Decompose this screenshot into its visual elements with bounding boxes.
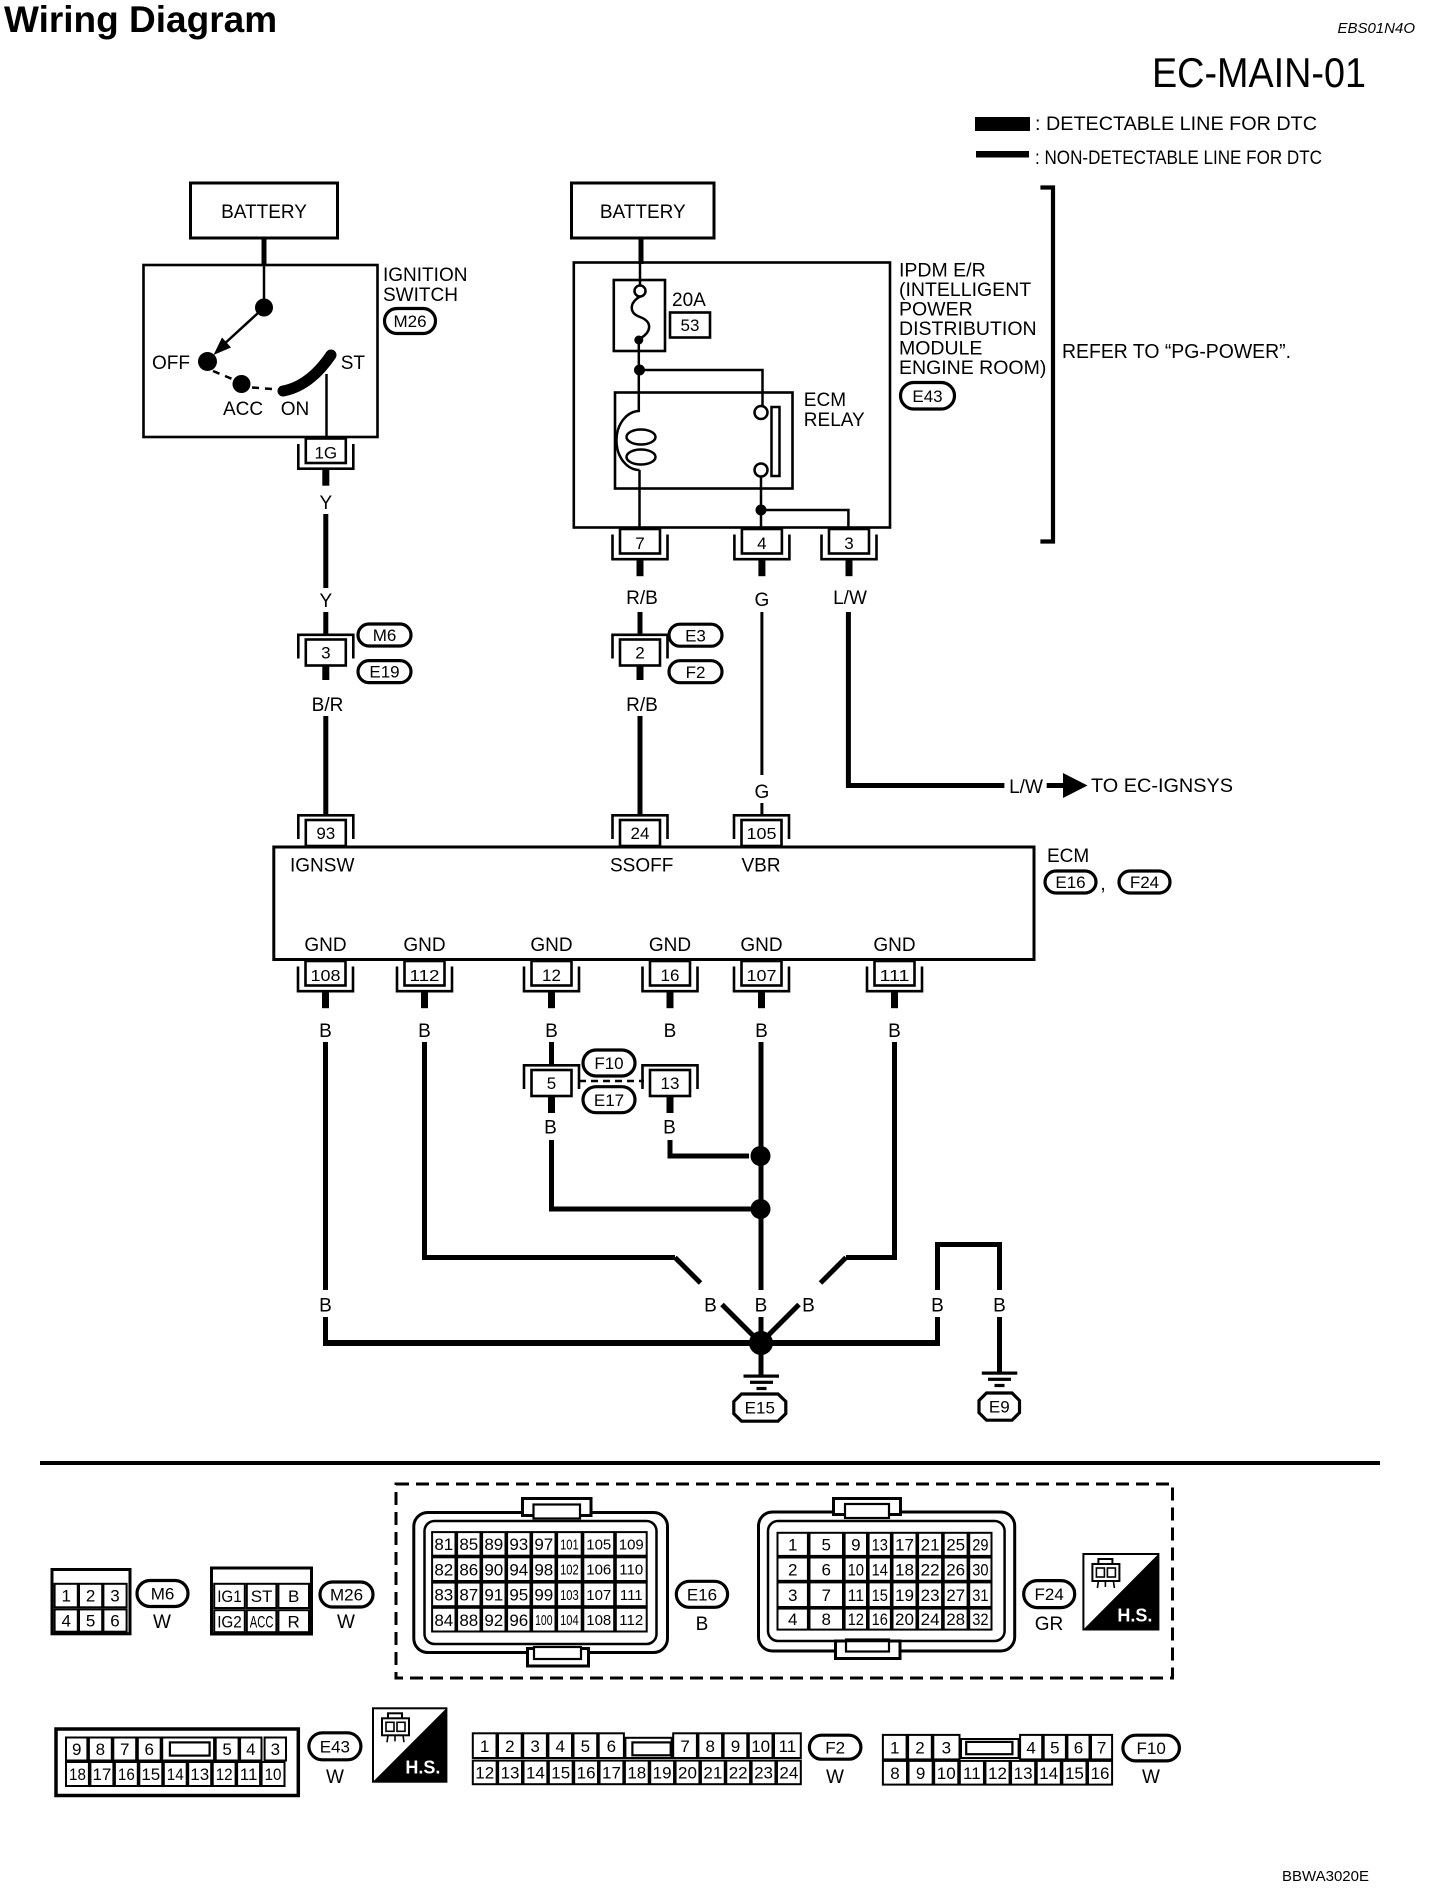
svg-text:E16: E16: [687, 1585, 717, 1604]
svg-text:6: 6: [607, 1737, 616, 1756]
svg-text:8: 8: [890, 1764, 899, 1783]
connector ref E16 oval (face): [676, 1581, 727, 1607]
ECM pin 111 connector: [875, 961, 915, 986]
svg-text:4: 4: [788, 1610, 797, 1629]
svg-text:W: W: [326, 1767, 344, 1788]
connector ref E16 oval: [1045, 871, 1096, 893]
dashed link OFF-ACC: [213, 371, 237, 381]
svg-text:E43: E43: [320, 1737, 350, 1756]
ECM pin 105 connector: [734, 815, 789, 839]
junction dot upper: [751, 1146, 771, 1166]
ground ref E9 oval: [979, 1393, 1020, 1420]
svg-text:107: 107: [747, 968, 777, 985]
svg-text:2: 2: [505, 1737, 514, 1756]
svg-text:Y: Y: [319, 591, 332, 612]
svg-text:8: 8: [96, 1740, 105, 1759]
svg-text:: DETECTABLE LINE FOR DTC: : DETECTABLE LINE FOR DTC: [1035, 114, 1317, 135]
wire R/B to ECM pin 24: [638, 716, 643, 815]
svg-text:93: 93: [316, 824, 335, 843]
legend non-detectable swatch: [976, 151, 1029, 158]
connector face M26: [212, 1568, 312, 1634]
svg-text:SSOFF: SSOFF: [610, 856, 673, 877]
harness dashes 5-13: [579, 1080, 644, 1083]
legend detectable swatch: [975, 117, 1030, 131]
svg-text:20: 20: [678, 1764, 697, 1783]
svg-text:B: B: [319, 1296, 332, 1317]
svg-text:13: 13: [661, 1074, 680, 1093]
wire B from 108: [323, 1042, 328, 1290]
svg-text:VBR: VBR: [742, 856, 781, 877]
relay armature slab: [772, 407, 780, 476]
svg-text:5: 5: [581, 1737, 590, 1756]
svg-text:B/R: B/R: [312, 695, 344, 716]
svg-text:B: B: [993, 1296, 1006, 1317]
harness dashed box: [396, 1484, 1173, 1678]
connector ref M26 oval: [385, 309, 436, 334]
wire coil to pin 7: [638, 470, 641, 528]
ECM pin 93 connector: [298, 815, 353, 839]
svg-text:53: 53: [681, 316, 700, 335]
svg-text:B: B: [544, 1118, 557, 1139]
svg-text:21: 21: [703, 1764, 722, 1783]
svg-text:24: 24: [779, 1764, 798, 1783]
svg-text:ENGINE ROOM): ENGINE ROOM): [899, 357, 1046, 379]
svg-text:B: B: [755, 1021, 768, 1042]
svg-text:106: 106: [586, 1562, 611, 1579]
svg-text:4: 4: [246, 1740, 255, 1759]
ECM pin 24 connector: [613, 815, 668, 839]
svg-text:B: B: [888, 1021, 901, 1042]
svg-text:ST: ST: [251, 1587, 273, 1606]
svg-text:12: 12: [216, 1765, 233, 1784]
svg-text:108: 108: [311, 968, 341, 985]
connector ref E43 oval: [901, 383, 955, 410]
svg-text:B: B: [663, 1118, 676, 1139]
svg-text:B: B: [704, 1296, 717, 1317]
wire B from 112: [425, 1042, 676, 1258]
svg-text:IG1: IG1: [217, 1587, 242, 1606]
svg-text:BATTERY: BATTERY: [600, 202, 686, 223]
arrow to EC-IGNSYS: [1047, 783, 1063, 788]
IPDM pin 7 connector: [620, 529, 660, 554]
connector ref F2 oval: [669, 661, 722, 683]
ground ref E15 oval: [734, 1394, 786, 1421]
svg-text:85: 85: [459, 1535, 478, 1554]
battery B1 box: [191, 183, 338, 238]
battery B2 box: [572, 183, 715, 238]
svg-text:EBS01N4O: EBS01N4O: [1337, 20, 1415, 37]
svg-text:11: 11: [779, 1737, 797, 1756]
svg-text:5: 5: [86, 1612, 95, 1631]
svg-text:B: B: [802, 1296, 815, 1317]
wire battery2 to IPDM: [639, 238, 644, 264]
connector ref M6 oval: [358, 624, 411, 646]
wire L/W elbow: [848, 612, 1004, 786]
connector ref E3 oval: [669, 624, 722, 646]
svg-text:26: 26: [946, 1560, 965, 1579]
connector ref F10 oval: [583, 1050, 635, 1076]
svg-text:107: 107: [586, 1587, 611, 1604]
svg-text:9: 9: [916, 1764, 925, 1783]
svg-text:F2: F2: [686, 663, 706, 682]
svg-text:ECM: ECM: [1047, 846, 1089, 867]
svg-text:18: 18: [627, 1764, 646, 1783]
connector ref F10 oval (face): [1123, 1735, 1180, 1761]
ground symbol E15: [744, 1375, 780, 1378]
fuse number 53: [670, 313, 710, 338]
svg-text:H.S.: H.S.: [1117, 1606, 1152, 1626]
connector face M6: [52, 1570, 130, 1634]
svg-text:SWITCH: SWITCH: [383, 285, 458, 306]
wire G: [760, 612, 763, 775]
svg-text:18: 18: [69, 1765, 86, 1784]
svg-text:E19: E19: [369, 663, 399, 682]
svg-text:94: 94: [509, 1560, 528, 1579]
svg-text:18: 18: [895, 1560, 914, 1579]
svg-text:96: 96: [509, 1611, 528, 1630]
svg-text:R/B: R/B: [626, 588, 658, 609]
main junction dot: [749, 1331, 773, 1355]
svg-text:111: 111: [880, 968, 910, 985]
svg-text:17: 17: [602, 1764, 621, 1783]
svg-text:11: 11: [963, 1764, 981, 1783]
svg-text:RELAY: RELAY: [804, 410, 865, 431]
ground bus main line: [323, 1340, 938, 1346]
connector ref E17 oval: [583, 1087, 635, 1113]
junction dot lower: [751, 1199, 771, 1219]
svg-text:3: 3: [942, 1738, 951, 1757]
svg-text:13: 13: [1014, 1764, 1033, 1783]
svg-text:111: 111: [620, 1587, 643, 1604]
ON-ST wiper crescent: [283, 355, 331, 391]
svg-text:7: 7: [822, 1586, 831, 1605]
wire Y segment: [323, 514, 328, 588]
svg-text:99: 99: [534, 1586, 553, 1605]
svg-text:16: 16: [118, 1765, 135, 1784]
svg-text:F10: F10: [1137, 1739, 1166, 1758]
connector face F24: [759, 1512, 1015, 1651]
svg-text:4: 4: [1026, 1738, 1035, 1757]
junction dot B: [756, 505, 767, 516]
svg-text:11: 11: [848, 1586, 864, 1605]
svg-text:87: 87: [459, 1586, 478, 1605]
svg-text:1G: 1G: [314, 444, 337, 463]
svg-text:1: 1: [480, 1737, 489, 1756]
svg-text:1: 1: [890, 1738, 899, 1757]
svg-text:B: B: [288, 1587, 299, 1606]
svg-text:12: 12: [848, 1610, 864, 1629]
svg-text:3: 3: [321, 644, 330, 663]
svg-text:6: 6: [145, 1740, 154, 1759]
svg-text:29: 29: [972, 1535, 988, 1554]
svg-text:F2: F2: [825, 1738, 845, 1757]
wire junction to E15 ground: [759, 1353, 764, 1376]
svg-text:22: 22: [729, 1764, 748, 1783]
svg-text:GND: GND: [649, 935, 691, 956]
svg-text:BBWA3020E: BBWA3020E: [1282, 1868, 1369, 1885]
svg-text:105: 105: [586, 1536, 611, 1553]
svg-text:Wiring Diagram: Wiring Diagram: [4, 0, 277, 40]
svg-text:16: 16: [577, 1764, 596, 1783]
svg-text:GND: GND: [403, 935, 445, 956]
svg-text:100: 100: [535, 1612, 552, 1629]
wire G to ECM pin 105: [760, 803, 763, 815]
ECM pin 16 connector: [650, 961, 690, 986]
inline terminal 5 connector: [524, 1065, 579, 1089]
wire B from 107: [759, 1042, 764, 1290]
svg-text:BATTERY: BATTERY: [221, 202, 307, 223]
svg-text:17: 17: [895, 1535, 914, 1554]
svg-text:1: 1: [788, 1535, 797, 1554]
svg-text:27: 27: [946, 1586, 965, 1605]
svg-text:20A: 20A: [672, 290, 706, 311]
svg-text:108: 108: [586, 1612, 611, 1629]
wire junction to contact: [640, 370, 763, 406]
junction dot A: [634, 365, 645, 376]
svg-text:4: 4: [555, 1737, 564, 1756]
svg-text:104: 104: [560, 1612, 579, 1629]
node ACC contact: [233, 375, 251, 393]
svg-text:83: 83: [434, 1586, 453, 1605]
wire diag 112 to junction: [675, 1258, 701, 1284]
svg-text:M26: M26: [330, 1586, 363, 1605]
svg-text:M6: M6: [373, 626, 397, 645]
wire contact to pin 4: [760, 477, 763, 529]
svg-text:15: 15: [141, 1765, 160, 1784]
svg-text:E43: E43: [912, 387, 942, 406]
svg-text:3: 3: [788, 1586, 797, 1605]
svg-text:5: 5: [222, 1740, 231, 1759]
svg-text:W: W: [153, 1612, 171, 1633]
connector ref F24 oval (face): [1024, 1581, 1075, 1608]
svg-text:110: 110: [619, 1562, 643, 1579]
svg-text:E16: E16: [1055, 873, 1085, 892]
wire 13 to junction: [670, 1140, 749, 1156]
svg-text:ACC: ACC: [250, 1612, 274, 1631]
wiper arrow to OFF: [222, 308, 264, 347]
wire to fuse: [639, 263, 642, 285]
svg-text:GND: GND: [740, 935, 782, 956]
svg-text:ACC: ACC: [223, 399, 263, 420]
svg-text:95: 95: [509, 1586, 528, 1605]
svg-text:7: 7: [635, 534, 644, 553]
svg-text:M26: M26: [393, 312, 426, 331]
terminal 1G connector: [306, 439, 346, 464]
ECM pin 12 connector: [532, 961, 572, 986]
svg-text:3: 3: [530, 1737, 539, 1756]
connector ref M26 oval (face): [320, 1582, 373, 1607]
svg-text:19: 19: [895, 1586, 914, 1605]
svg-text:24: 24: [921, 1610, 940, 1629]
svg-text:2: 2: [86, 1587, 95, 1606]
svg-text:G: G: [755, 782, 770, 803]
svg-text:25: 25: [946, 1535, 965, 1554]
svg-text:103: 103: [560, 1587, 579, 1604]
svg-text:2: 2: [635, 644, 644, 663]
svg-text:6: 6: [110, 1612, 119, 1631]
svg-text:24: 24: [631, 824, 650, 843]
svg-text:B: B: [931, 1296, 944, 1317]
node OFF contact: [198, 352, 217, 371]
svg-text:W: W: [826, 1767, 844, 1788]
svg-text:E17: E17: [594, 1091, 624, 1110]
svg-text:6: 6: [822, 1560, 831, 1579]
svg-text:15: 15: [551, 1764, 570, 1783]
svg-text:21: 21: [921, 1535, 940, 1554]
svg-text:B: B: [696, 1614, 709, 1635]
svg-text:13: 13: [501, 1764, 520, 1783]
fuse element: [635, 286, 646, 297]
relay contact bottom: [755, 464, 768, 477]
wire ST output: [325, 374, 328, 437]
svg-text:F10: F10: [594, 1054, 623, 1073]
svg-text:: NON-DETECTABLE LINE FOR DTC: : NON-DETECTABLE LINE FOR DTC: [1035, 148, 1322, 169]
svg-text:112: 112: [619, 1612, 643, 1629]
svg-text:10: 10: [848, 1560, 864, 1579]
svg-text:E9: E9: [989, 1398, 1010, 1417]
wire 5 to junction: [552, 1140, 753, 1209]
svg-text:105: 105: [747, 826, 777, 843]
svg-text:17: 17: [92, 1765, 111, 1784]
svg-text:L/W: L/W: [1009, 777, 1043, 798]
svg-text:5: 5: [1050, 1738, 1059, 1757]
svg-text:ECM: ECM: [804, 390, 846, 411]
svg-text:2: 2: [788, 1560, 797, 1579]
ECM pin 107 connector: [742, 961, 782, 986]
svg-text:91: 91: [484, 1586, 503, 1605]
svg-text:R: R: [288, 1612, 300, 1631]
svg-text:GR: GR: [1035, 1614, 1064, 1635]
IPDM E/R box: [574, 263, 890, 528]
wire Y to connector 3: [323, 612, 328, 634]
node common dot: [255, 299, 273, 317]
svg-text:12: 12: [988, 1764, 1007, 1783]
relay coil: [617, 411, 640, 470]
svg-text:B: B: [755, 1296, 768, 1317]
svg-text:7: 7: [1097, 1738, 1106, 1757]
svg-text:E15: E15: [745, 1399, 775, 1418]
svg-text:28: 28: [946, 1610, 965, 1629]
svg-text:REFER TO “PG-POWER”.: REFER TO “PG-POWER”.: [1062, 341, 1291, 363]
svg-text:ON: ON: [281, 399, 310, 420]
svg-text:B: B: [319, 1021, 332, 1042]
wire R/B upper: [638, 612, 643, 634]
svg-text:IGNITION: IGNITION: [383, 265, 467, 286]
svg-text:10: 10: [751, 1737, 770, 1756]
svg-text:G: G: [755, 590, 770, 611]
svg-text:9: 9: [72, 1740, 81, 1759]
wire diag 111 to junction: [821, 1258, 847, 1284]
svg-text:20: 20: [895, 1610, 914, 1629]
svg-text:2: 2: [915, 1738, 924, 1757]
svg-text:14: 14: [872, 1560, 888, 1579]
svg-text:6: 6: [1074, 1738, 1083, 1757]
svg-text:IG2: IG2: [217, 1612, 242, 1631]
connector face F2: [473, 1733, 497, 1758]
connector ref F24 oval: [1119, 871, 1170, 893]
svg-text:GND: GND: [530, 935, 572, 956]
svg-text:GND: GND: [304, 935, 346, 956]
inline terminal 2 connector: [613, 635, 668, 659]
wire junction to pin 3: [761, 510, 848, 528]
svg-text:16: 16: [661, 966, 680, 985]
svg-text:ST: ST: [341, 353, 366, 374]
svg-text:4: 4: [61, 1612, 70, 1631]
svg-text:16: 16: [872, 1610, 888, 1629]
svg-text:E3: E3: [685, 626, 706, 645]
svg-text:L/W: L/W: [833, 588, 867, 609]
svg-text:81: 81: [434, 1535, 453, 1554]
connector ref F2 oval (face): [809, 1735, 861, 1759]
svg-text:84: 84: [434, 1611, 453, 1630]
svg-text:23: 23: [754, 1764, 773, 1783]
svg-text:82: 82: [434, 1560, 453, 1579]
svg-text:112: 112: [410, 968, 440, 985]
dashed link ACC-ON: [252, 388, 278, 390]
svg-text:F24: F24: [1130, 873, 1159, 892]
svg-text:4: 4: [757, 534, 766, 553]
ECM box: [274, 847, 1034, 960]
wire battery1 to ignition switch: [262, 238, 267, 266]
svg-text:11: 11: [240, 1765, 258, 1784]
connector face F10: [883, 1735, 907, 1760]
wire ignition feed: [263, 266, 266, 300]
svg-text:97: 97: [534, 1535, 553, 1554]
svg-text:OFF: OFF: [152, 353, 190, 374]
svg-text:14: 14: [526, 1764, 545, 1783]
wire to E9 branch: [935, 1317, 940, 1346]
svg-text:8: 8: [706, 1737, 715, 1756]
connector face E43: [56, 1729, 298, 1796]
IPDM pin 4 connector: [742, 529, 782, 554]
svg-text:90: 90: [484, 1560, 503, 1579]
svg-text:15: 15: [1065, 1764, 1084, 1783]
svg-text:9: 9: [851, 1535, 860, 1554]
svg-text:TO EC-IGNSYS: TO EC-IGNSYS: [1091, 776, 1233, 797]
svg-text:19: 19: [653, 1764, 672, 1783]
svg-text:22: 22: [921, 1560, 940, 1579]
connector face E16: [414, 1513, 668, 1653]
svg-text:15: 15: [872, 1586, 888, 1605]
svg-text:M6: M6: [151, 1585, 175, 1604]
svg-text:86: 86: [459, 1560, 478, 1579]
svg-text:3: 3: [271, 1740, 280, 1759]
svg-text:16: 16: [1091, 1764, 1110, 1783]
IPDM pin 3 connector: [829, 529, 869, 554]
svg-text:5: 5: [547, 1074, 556, 1093]
svg-text:14: 14: [167, 1765, 184, 1784]
ECM pin 108 connector: [306, 961, 346, 986]
svg-text:IGNSW: IGNSW: [290, 856, 354, 877]
H.S. icon (harness box): [1083, 1554, 1158, 1630]
svg-text:13: 13: [872, 1535, 888, 1554]
svg-text:31: 31: [972, 1586, 988, 1605]
svg-text:88: 88: [459, 1611, 478, 1630]
svg-text:B: B: [664, 1021, 677, 1042]
wire B/R to ECM pin 93: [323, 716, 328, 815]
svg-text:101: 101: [560, 1536, 579, 1553]
inline terminal 3 connector: [298, 635, 353, 659]
wire fuse to coil: [638, 344, 641, 412]
ground symbol E9: [982, 1372, 1018, 1375]
svg-text:F24: F24: [1035, 1585, 1064, 1604]
svg-text:93: 93: [509, 1535, 528, 1554]
svg-text:R/B: R/B: [626, 695, 658, 716]
svg-text:8: 8: [822, 1610, 831, 1629]
ECM pin 112 connector: [405, 961, 445, 986]
svg-text:H.S.: H.S.: [405, 1758, 440, 1778]
svg-text:GND: GND: [873, 935, 915, 956]
